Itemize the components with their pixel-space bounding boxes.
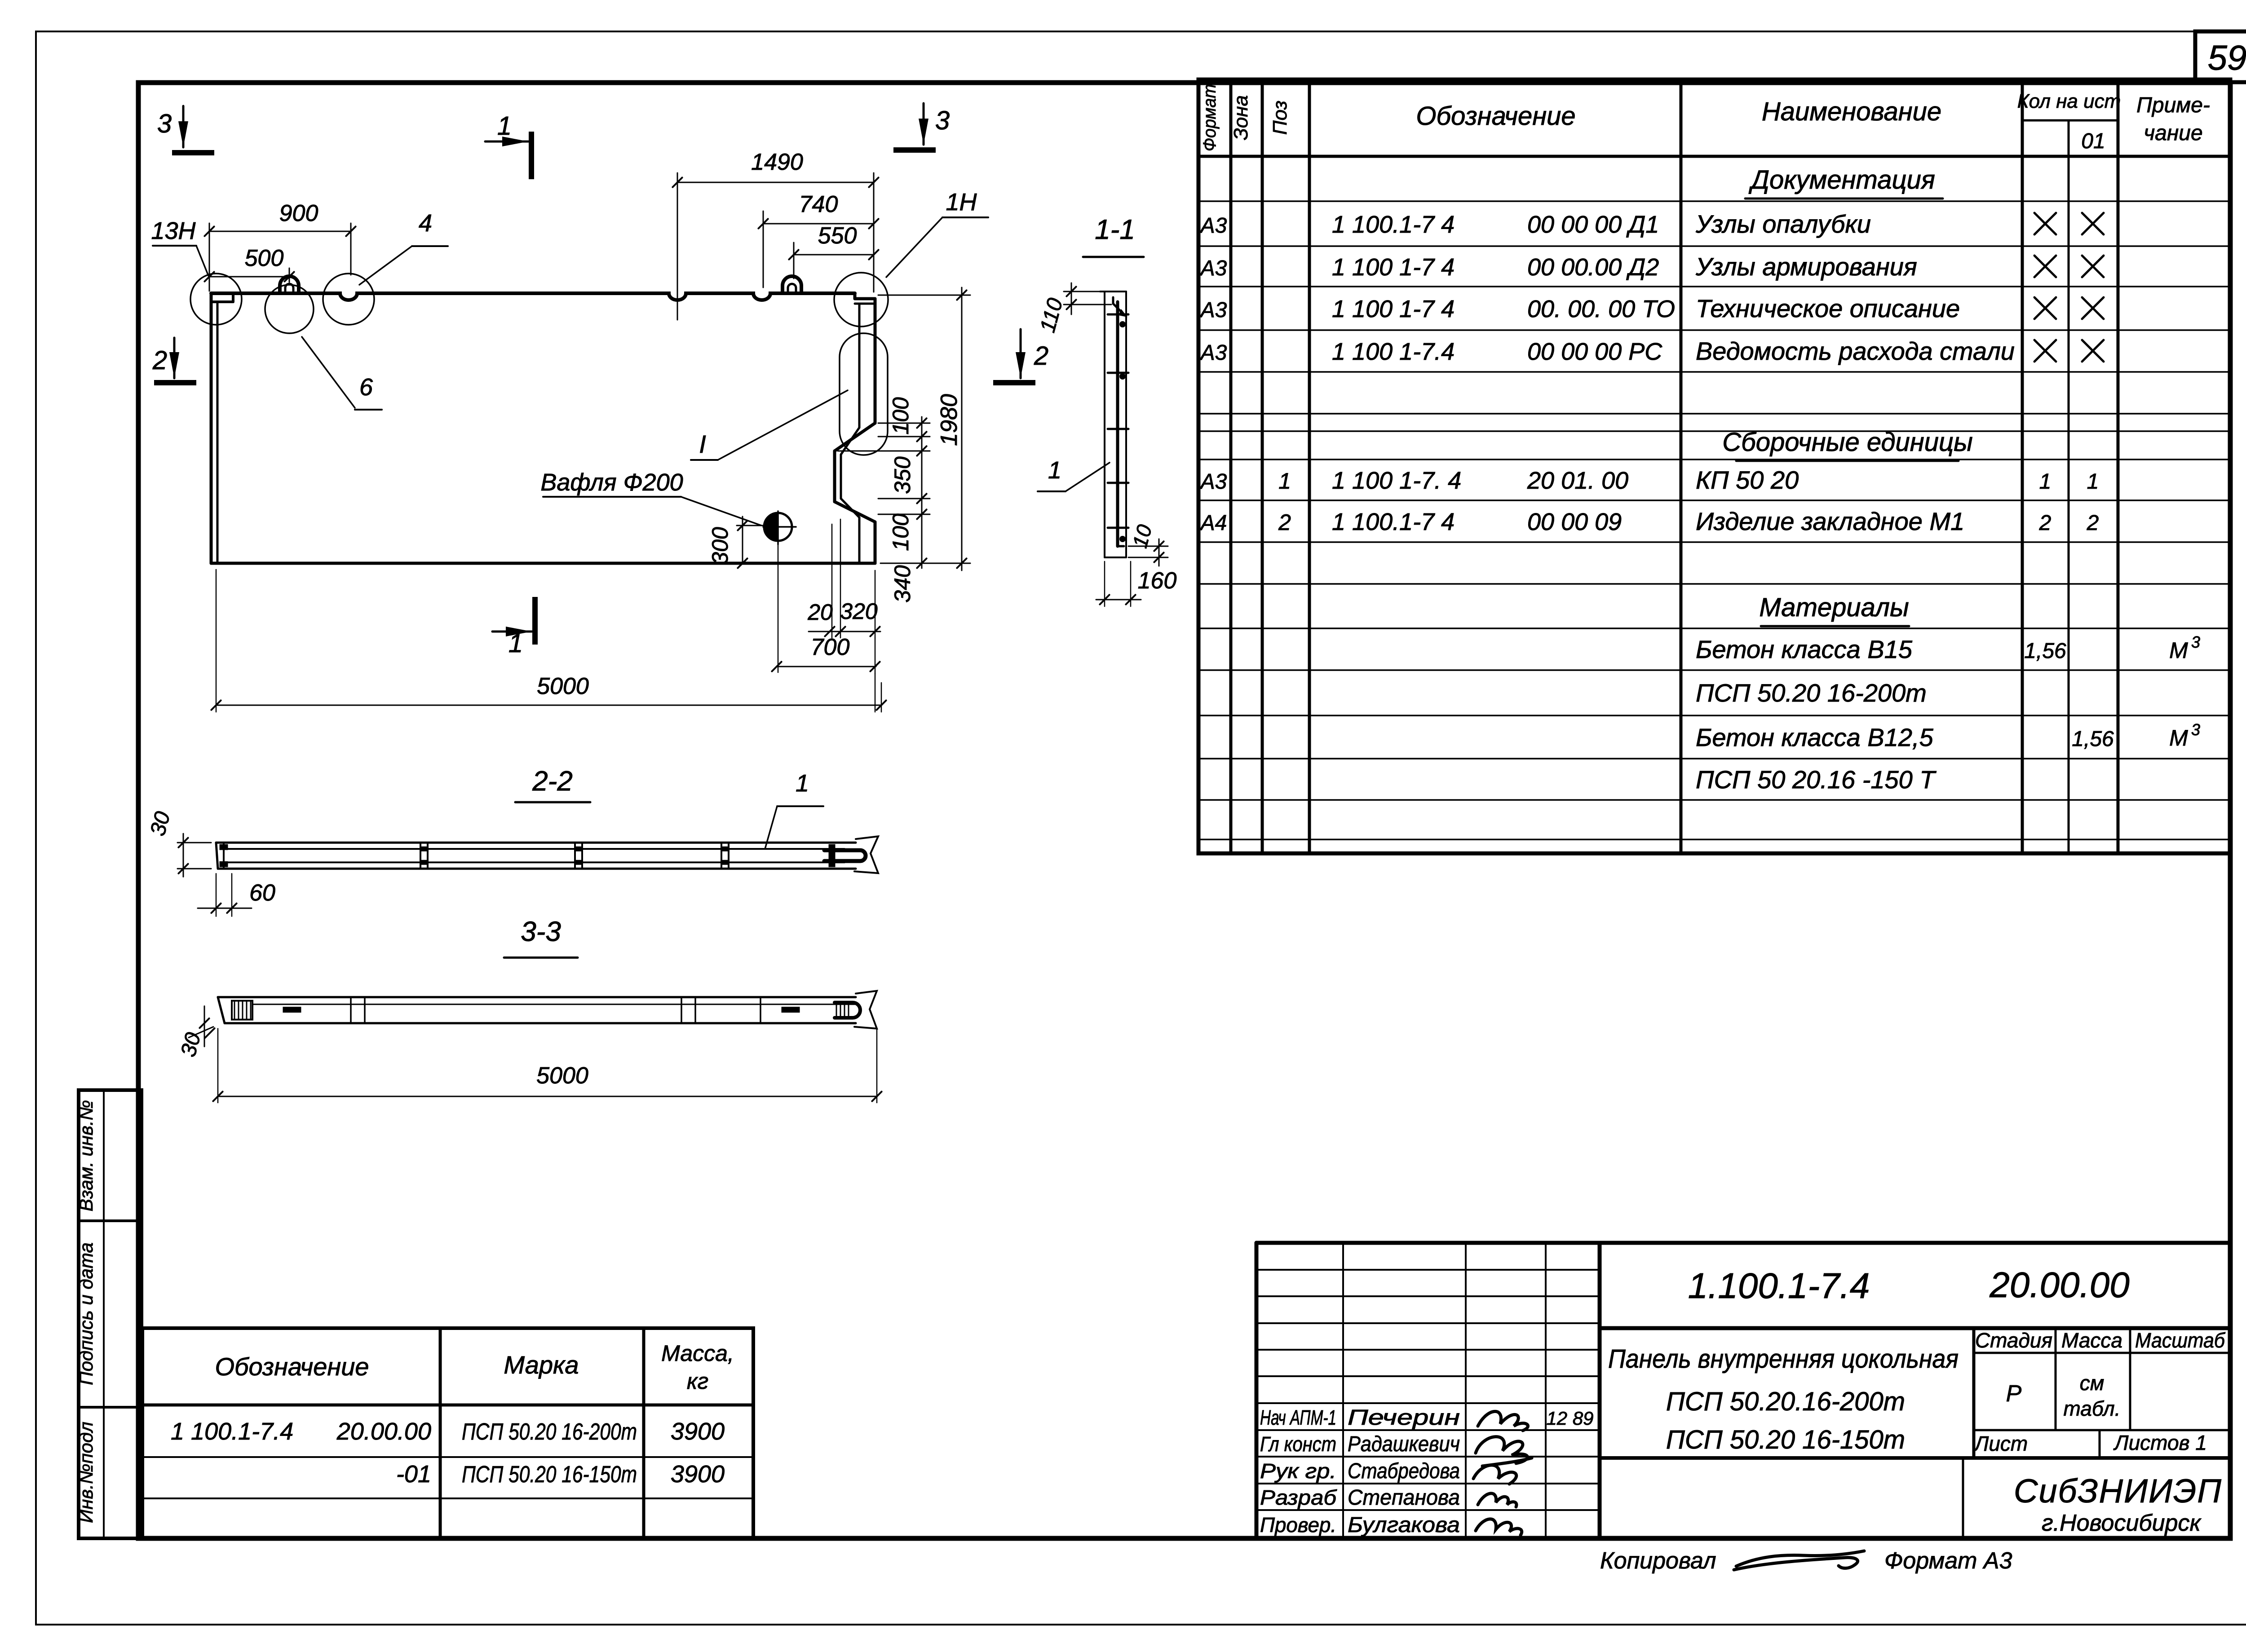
svg-text:1,56: 1,56 bbox=[2024, 639, 2066, 663]
svg-text:М: М bbox=[2169, 725, 2188, 751]
svg-text:1 100 1-7 4: 1 100 1-7 4 bbox=[1332, 254, 1455, 281]
svg-text:ПСП 50 20.16 -150 Т: ПСП 50 20.16 -150 Т bbox=[1696, 765, 1937, 794]
svg-text:1: 1 bbox=[2087, 470, 2099, 494]
svg-text:550: 550 bbox=[818, 223, 857, 249]
svg-text:Подпись и дата: Подпись и дата bbox=[75, 1242, 97, 1385]
svg-text:13Н: 13Н bbox=[151, 217, 196, 244]
svg-text:Материалы: Материалы bbox=[1759, 593, 1909, 622]
svg-text:1Н: 1Н bbox=[946, 189, 977, 216]
svg-text:Радашкевич: Радашкевич bbox=[1348, 1432, 1460, 1456]
svg-text:1 100.1-7.4: 1 100.1-7.4 bbox=[171, 1418, 293, 1445]
svg-text:Нач АПМ-1: Нач АПМ-1 bbox=[1260, 1406, 1336, 1429]
svg-text:А3: А3 bbox=[1199, 470, 1227, 494]
svg-text:г.Новосибирск: г.Новосибирск bbox=[2042, 1510, 2202, 1536]
svg-text:00 00 00 Д1: 00 00 00 Д1 bbox=[1527, 211, 1659, 238]
svg-text:Узлы армирования: Узлы армирования bbox=[1695, 252, 1917, 281]
svg-text:00 00 00 РС: 00 00 00 РС bbox=[1527, 338, 1662, 365]
svg-text:3-3: 3-3 bbox=[521, 916, 561, 947]
svg-text:Формат А3: Формат А3 bbox=[1884, 1548, 2012, 1574]
svg-text:чание: чание bbox=[2144, 121, 2202, 145]
svg-text:Зона: Зона bbox=[1230, 95, 1252, 140]
svg-text:1: 1 bbox=[497, 111, 512, 141]
svg-text:ПСП 50.20 16-200т: ПСП 50.20 16-200т bbox=[1696, 679, 1927, 707]
svg-text:1,56: 1,56 bbox=[2072, 727, 2114, 751]
svg-text:3: 3 bbox=[157, 109, 172, 138]
svg-text:Обозначение: Обозначение bbox=[1416, 102, 1575, 131]
svg-text:Инв.№подл: Инв.№подл bbox=[75, 1422, 97, 1523]
svg-text:20.00.00: 20.00.00 bbox=[1989, 1265, 2129, 1305]
svg-text:Лист: Лист bbox=[1973, 1432, 2028, 1455]
svg-text:Кол на ист: Кол на ист bbox=[2017, 90, 2121, 112]
svg-text:2: 2 bbox=[2087, 511, 2099, 535]
svg-text:А4: А4 bbox=[1199, 511, 1227, 535]
svg-text:12 89: 12 89 bbox=[1546, 1408, 1593, 1429]
svg-text:20: 20 bbox=[807, 600, 833, 625]
svg-text:Провер.: Провер. bbox=[1260, 1513, 1336, 1537]
svg-text:Стабредова: Стабредова bbox=[1348, 1459, 1460, 1483]
svg-text:1: 1 bbox=[2039, 470, 2051, 494]
svg-text:Рук гр.: Рук гр. bbox=[1260, 1459, 1336, 1483]
svg-text:1: 1 bbox=[796, 770, 809, 797]
svg-text:Листов 1: Листов 1 bbox=[2113, 1431, 2207, 1454]
svg-text:2-2: 2-2 bbox=[532, 766, 573, 797]
svg-text:Булгакова: Булгакова bbox=[1348, 1513, 1460, 1537]
svg-text:А3: А3 bbox=[1199, 298, 1227, 322]
svg-text:ПСП 50.20 16-150т: ПСП 50.20 16-150т bbox=[462, 1462, 637, 1488]
svg-text:1490: 1490 bbox=[751, 149, 803, 175]
svg-text:700: 700 bbox=[811, 634, 850, 660]
svg-text:Масса,: Масса, bbox=[661, 1341, 734, 1366]
svg-text:1-1: 1-1 bbox=[1095, 214, 1135, 245]
svg-text:350: 350 bbox=[890, 456, 915, 494]
svg-text:5000: 5000 bbox=[536, 1063, 588, 1089]
svg-text:2: 2 bbox=[152, 346, 167, 375]
svg-text:3: 3 bbox=[935, 106, 950, 135]
svg-text:Ведомость расхода стали: Ведомость расхода стали bbox=[1696, 337, 2015, 365]
svg-text:ПСП 50.20.16-200т: ПСП 50.20.16-200т bbox=[1666, 1387, 1905, 1416]
svg-text:1 100 1-7.4: 1 100 1-7.4 bbox=[1332, 338, 1455, 365]
svg-text:160: 160 bbox=[1138, 568, 1177, 594]
svg-text:1: 1 bbox=[1278, 468, 1291, 494]
svg-text:1 100.1-7 4: 1 100.1-7 4 bbox=[1332, 211, 1455, 238]
svg-text:Техническое описание: Техническое описание bbox=[1696, 294, 1960, 322]
svg-text:Вафля Ф200: Вафля Ф200 bbox=[540, 469, 683, 496]
svg-text:3: 3 bbox=[2191, 633, 2200, 651]
svg-text:-01: -01 bbox=[396, 1461, 431, 1488]
svg-text:Изделие закладное М1: Изделие закладное М1 bbox=[1696, 507, 1964, 535]
svg-text:1 100.1-7 4: 1 100.1-7 4 bbox=[1332, 508, 1455, 535]
svg-text:Масштаб: Масштаб bbox=[2135, 1329, 2226, 1352]
svg-text:Наименование: Наименование bbox=[1762, 97, 1941, 126]
svg-text:КП 50 20: КП 50 20 bbox=[1696, 466, 1799, 494]
svg-text:5000: 5000 bbox=[537, 673, 589, 699]
svg-text:2: 2 bbox=[1034, 341, 1048, 371]
svg-text:740: 740 bbox=[799, 191, 838, 217]
svg-text:1980: 1980 bbox=[936, 394, 962, 446]
svg-text:Узлы опалубки: Узлы опалубки bbox=[1695, 210, 1871, 238]
svg-text:ПСП 50.20 16-150т: ПСП 50.20 16-150т bbox=[1666, 1425, 1905, 1454]
svg-text:Гл конст: Гл конст bbox=[1260, 1432, 1336, 1456]
svg-text:Панель внутренняя цокольная: Панель внутренняя цокольная bbox=[1608, 1344, 1959, 1374]
svg-text:Формат: Формат bbox=[1200, 84, 1220, 151]
svg-text:2: 2 bbox=[1278, 510, 1291, 535]
svg-text:59: 59 bbox=[2208, 38, 2246, 77]
svg-text:Сборочные единицы: Сборочные единицы bbox=[1722, 428, 1973, 457]
svg-text:Стадия: Стадия bbox=[1975, 1329, 2052, 1352]
svg-text:А3: А3 bbox=[1199, 214, 1227, 238]
svg-text:3900: 3900 bbox=[671, 1418, 725, 1445]
svg-text:1.100.1-7.4: 1.100.1-7.4 bbox=[1688, 1266, 1870, 1306]
svg-text:Масса: Масса bbox=[2061, 1329, 2122, 1352]
svg-text:340: 340 bbox=[890, 565, 915, 603]
svg-text:Обозначение: Обозначение bbox=[215, 1352, 369, 1381]
svg-text:500: 500 bbox=[245, 245, 284, 271]
svg-text:20.00.00: 20.00.00 bbox=[336, 1418, 431, 1445]
svg-text:60: 60 bbox=[249, 880, 275, 906]
svg-text:А3: А3 bbox=[1199, 341, 1227, 365]
svg-text:00 00.00 Д2: 00 00.00 Д2 bbox=[1527, 254, 1659, 281]
svg-text:3900: 3900 bbox=[671, 1461, 725, 1488]
svg-text:ПСП 50.20 16-200т: ПСП 50.20 16-200т bbox=[462, 1419, 637, 1445]
svg-text:300: 300 bbox=[707, 527, 733, 565]
svg-text:100: 100 bbox=[888, 513, 913, 551]
svg-text:3: 3 bbox=[2191, 720, 2200, 739]
svg-text:табл.: табл. bbox=[2064, 1397, 2121, 1420]
svg-text:1 100 1-7 4: 1 100 1-7 4 bbox=[1332, 296, 1455, 322]
svg-text:1: 1 bbox=[1048, 457, 1061, 484]
svg-text:Копировал: Копировал bbox=[1600, 1548, 1716, 1574]
svg-text:00 00 09: 00 00 09 bbox=[1527, 508, 1622, 535]
svg-text:4: 4 bbox=[419, 210, 432, 237]
svg-text:I: I bbox=[699, 430, 706, 458]
svg-text:Степанова: Степанова bbox=[1348, 1486, 1460, 1510]
svg-text:00. 00. 00 ТО: 00. 00. 00 ТО bbox=[1527, 296, 1675, 322]
svg-text:01: 01 bbox=[2081, 129, 2105, 153]
svg-text:100: 100 bbox=[888, 397, 913, 435]
svg-text:Документация: Документация bbox=[1748, 165, 1935, 194]
svg-text:Бетон класса В15: Бетон класса В15 bbox=[1696, 635, 1913, 663]
svg-text:М: М bbox=[2169, 638, 2188, 663]
svg-text:Приме-: Приме- bbox=[2136, 93, 2210, 117]
svg-text:320: 320 bbox=[840, 599, 878, 624]
svg-text:6: 6 bbox=[359, 374, 373, 401]
svg-text:Поз: Поз bbox=[1269, 101, 1291, 135]
svg-text:Бетон класса В12,5: Бетон класса В12,5 bbox=[1696, 723, 1934, 751]
svg-text:Взам. инв.№: Взам. инв.№ bbox=[75, 1100, 97, 1211]
svg-text:1 100 1-7. 4: 1 100 1-7. 4 bbox=[1332, 467, 1461, 494]
svg-text:Р: Р bbox=[2006, 1381, 2022, 1407]
svg-text:20 01. 00: 20 01. 00 bbox=[1527, 467, 1628, 494]
svg-text:см: см bbox=[2080, 1371, 2105, 1395]
svg-text:А3: А3 bbox=[1199, 256, 1227, 280]
svg-text:Разраб: Разраб bbox=[1260, 1486, 1337, 1509]
svg-text:СибЗНИИЭП: СибЗНИИЭП bbox=[2014, 1472, 2222, 1510]
svg-text:кг: кг bbox=[687, 1369, 708, 1394]
svg-text:Печерин: Печерин bbox=[1348, 1406, 1460, 1430]
svg-text:900: 900 bbox=[279, 200, 318, 226]
svg-text:Марка: Марка bbox=[504, 1351, 579, 1379]
svg-text:2: 2 bbox=[2039, 511, 2051, 535]
